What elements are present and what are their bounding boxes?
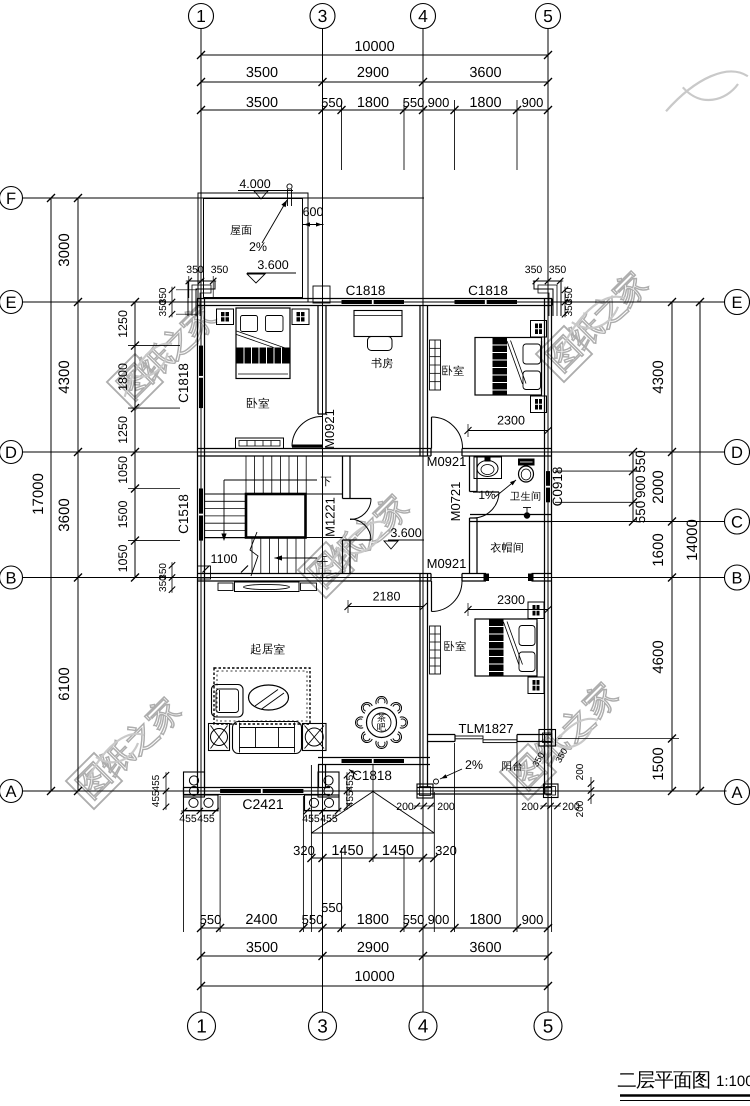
- svg-text:3: 3: [317, 1017, 328, 1038]
- svg-text:M0721: M0721: [448, 482, 463, 522]
- svg-text:F: F: [6, 190, 16, 208]
- svg-text:3000: 3000: [56, 233, 73, 266]
- svg-text:C1518: C1518: [176, 494, 191, 534]
- svg-text:D: D: [5, 444, 17, 462]
- svg-text:455: 455: [179, 813, 197, 825]
- svg-text:1800: 1800: [469, 912, 501, 928]
- svg-text:C1818: C1818: [176, 363, 191, 403]
- svg-text:900: 900: [633, 475, 648, 498]
- svg-text:1800: 1800: [357, 95, 389, 111]
- svg-text:200: 200: [521, 801, 539, 813]
- svg-text:10000: 10000: [354, 39, 394, 55]
- svg-text:3: 3: [318, 6, 328, 26]
- svg-text:A: A: [5, 783, 16, 801]
- svg-text:1500: 1500: [650, 747, 667, 780]
- svg-text:1450: 1450: [382, 843, 414, 859]
- svg-text:4300: 4300: [56, 360, 73, 393]
- svg-text:2180: 2180: [373, 590, 401, 604]
- svg-text:1050: 1050: [116, 456, 130, 484]
- svg-text:3.600: 3.600: [390, 526, 421, 540]
- svg-text:3500: 3500: [246, 940, 278, 956]
- svg-text:4600: 4600: [650, 640, 667, 673]
- svg-text:1500: 1500: [116, 501, 130, 529]
- svg-text:M0921: M0921: [322, 409, 337, 449]
- svg-text:350: 350: [158, 299, 169, 316]
- svg-text:200: 200: [437, 801, 455, 813]
- svg-text:1050: 1050: [116, 545, 130, 573]
- svg-text:10000: 10000: [354, 969, 394, 985]
- svg-text:M0921: M0921: [427, 454, 467, 469]
- svg-text:4: 4: [418, 6, 428, 26]
- svg-text:4.000: 4.000: [239, 177, 270, 191]
- svg-text:1800: 1800: [469, 95, 501, 111]
- svg-text:C1818: C1818: [346, 283, 386, 298]
- svg-text:E: E: [5, 294, 16, 312]
- svg-text:900: 900: [428, 95, 450, 110]
- svg-text:550: 550: [200, 912, 222, 927]
- svg-text:1%: 1%: [478, 488, 496, 502]
- svg-text:3600: 3600: [469, 65, 501, 81]
- svg-text:4: 4: [418, 1017, 429, 1038]
- svg-text:550: 550: [633, 450, 648, 473]
- svg-text:5: 5: [543, 6, 553, 26]
- svg-text:C: C: [731, 513, 743, 531]
- svg-text:350: 350: [525, 264, 543, 276]
- svg-text:1250: 1250: [116, 310, 130, 338]
- svg-text:550: 550: [403, 95, 425, 110]
- svg-text:1: 1: [196, 1017, 207, 1038]
- svg-text:320: 320: [435, 843, 457, 858]
- svg-text:3600: 3600: [56, 498, 73, 531]
- svg-text:550: 550: [403, 912, 425, 927]
- svg-text:200: 200: [396, 801, 414, 813]
- svg-text:455: 455: [151, 774, 162, 791]
- svg-text:1800: 1800: [357, 912, 389, 928]
- svg-text:455: 455: [345, 790, 356, 807]
- svg-text:1800: 1800: [116, 363, 130, 391]
- svg-text:17000: 17000: [30, 473, 47, 515]
- svg-text:550: 550: [321, 95, 343, 110]
- svg-text:200: 200: [575, 800, 586, 817]
- svg-text:3500: 3500: [246, 95, 278, 111]
- svg-text:3500: 3500: [246, 65, 278, 81]
- svg-text:350: 350: [158, 575, 169, 592]
- svg-text:2300: 2300: [497, 414, 525, 428]
- svg-text:350: 350: [564, 299, 575, 316]
- svg-text:900: 900: [428, 912, 450, 927]
- svg-text:C1818: C1818: [352, 768, 392, 783]
- svg-text:1600: 1600: [650, 533, 667, 566]
- svg-text:600: 600: [303, 205, 324, 219]
- svg-text:TLM1827: TLM1827: [459, 721, 514, 736]
- svg-text:3600: 3600: [469, 940, 501, 956]
- svg-text:2300: 2300: [497, 593, 525, 607]
- svg-text:550: 550: [633, 501, 648, 524]
- svg-text:C1818: C1818: [468, 283, 508, 298]
- svg-text:M0921: M0921: [427, 556, 467, 571]
- svg-text:D: D: [731, 444, 743, 462]
- svg-text:14000: 14000: [684, 519, 701, 561]
- svg-text:550: 550: [321, 900, 343, 915]
- svg-text:455: 455: [320, 813, 338, 825]
- svg-text:2%: 2%: [249, 240, 267, 254]
- svg-text:350: 350: [186, 264, 204, 276]
- svg-text:B: B: [731, 569, 742, 587]
- svg-text:2900: 2900: [357, 940, 389, 956]
- svg-text:200: 200: [575, 763, 586, 780]
- svg-text:B: B: [5, 569, 16, 587]
- svg-text:900: 900: [522, 95, 544, 110]
- svg-text:350: 350: [549, 264, 567, 276]
- svg-text:1100: 1100: [211, 552, 238, 566]
- svg-text:2%: 2%: [465, 758, 483, 772]
- svg-text:1250: 1250: [116, 416, 130, 444]
- svg-text:4300: 4300: [650, 360, 667, 393]
- svg-text:C2421: C2421: [242, 796, 283, 812]
- svg-text:6100: 6100: [56, 667, 73, 700]
- svg-text:900: 900: [522, 912, 544, 927]
- svg-text:5: 5: [543, 1017, 554, 1038]
- svg-text:M1221: M1221: [323, 497, 338, 537]
- svg-text:1: 1: [196, 6, 206, 26]
- svg-text:A: A: [731, 784, 742, 802]
- svg-text:350: 350: [211, 264, 229, 276]
- svg-text:1:100: 1:100: [716, 1073, 750, 1090]
- svg-text:455: 455: [151, 790, 162, 807]
- svg-text:2400: 2400: [245, 912, 277, 928]
- svg-text:C0918: C0918: [550, 467, 565, 507]
- svg-text:550: 550: [302, 912, 324, 927]
- svg-text:E: E: [731, 294, 742, 312]
- svg-text:2900: 2900: [357, 65, 389, 81]
- svg-text:2000: 2000: [650, 470, 667, 503]
- svg-text:1450: 1450: [331, 843, 363, 859]
- svg-text:3.600: 3.600: [257, 258, 288, 272]
- svg-text:455: 455: [197, 813, 215, 825]
